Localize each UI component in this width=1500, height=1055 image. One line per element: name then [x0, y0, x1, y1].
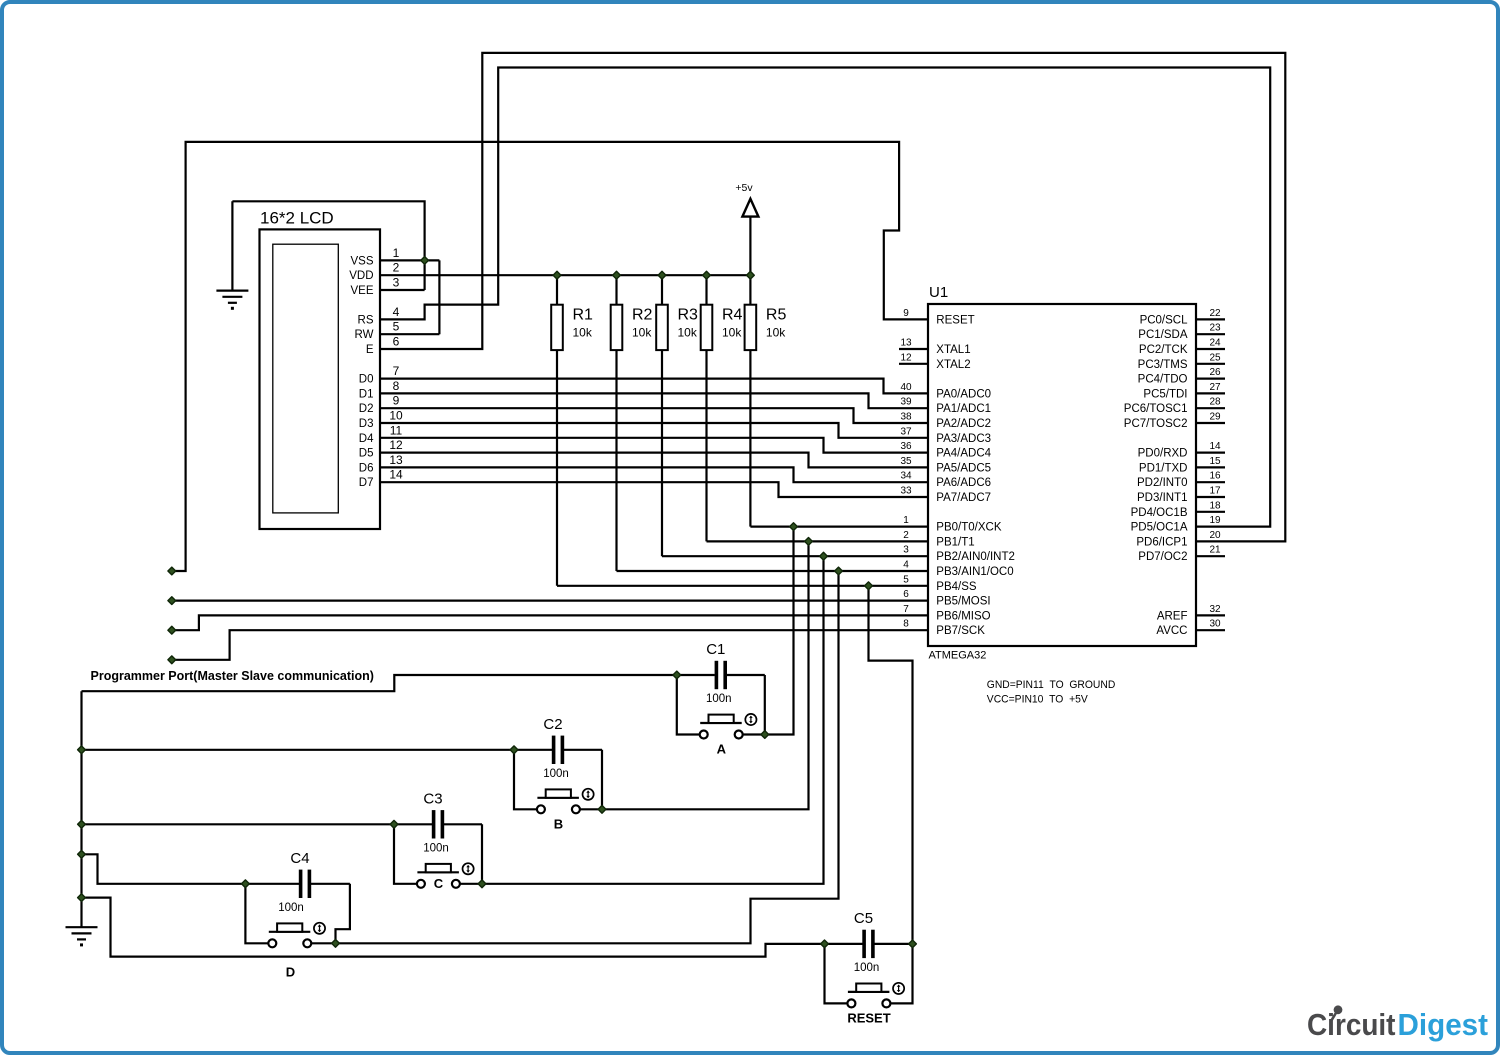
svg-text:PB5/MOSI: PB5/MOSI: [936, 596, 990, 608]
svg-text:12: 12: [900, 352, 912, 363]
svg-text:6: 6: [393, 335, 400, 349]
svg-text:D2: D2: [359, 403, 374, 415]
svg-text:38: 38: [900, 412, 912, 423]
svg-text:39: 39: [900, 397, 912, 408]
svg-text:R1: R1: [573, 307, 594, 324]
svg-text:C3: C3: [423, 790, 442, 807]
svg-text:PA6/ADC6: PA6/ADC6: [936, 477, 991, 489]
svg-text:100n: 100n: [706, 693, 732, 705]
svg-text:13: 13: [389, 453, 403, 467]
svg-text:AVCC: AVCC: [1156, 625, 1187, 637]
svg-text:D: D: [286, 965, 295, 980]
svg-text:26: 26: [1209, 367, 1221, 378]
svg-text:D1: D1: [359, 388, 374, 400]
svg-text:PB6/MISO: PB6/MISO: [936, 610, 990, 622]
svg-text:30: 30: [1209, 619, 1221, 630]
svg-text:3: 3: [903, 545, 909, 556]
svg-text:2: 2: [903, 530, 909, 541]
svg-text:4: 4: [903, 560, 909, 571]
svg-text:PB7/SCK: PB7/SCK: [936, 625, 985, 637]
svg-text:1: 1: [393, 246, 400, 260]
svg-text:PD6/ICP1: PD6/ICP1: [1136, 536, 1187, 548]
svg-text:+5v: +5v: [735, 182, 753, 194]
svg-text:PA5/ADC5: PA5/ADC5: [936, 462, 991, 474]
svg-text:RESET: RESET: [936, 314, 974, 326]
svg-text:C5: C5: [854, 910, 873, 927]
svg-text:36: 36: [900, 441, 912, 452]
svg-text:R2: R2: [632, 307, 653, 324]
svg-text:D5: D5: [359, 448, 374, 460]
svg-text:VEE: VEE: [350, 285, 373, 297]
svg-text:10k: 10k: [722, 326, 742, 340]
svg-text:37: 37: [900, 426, 912, 437]
svg-text:D6: D6: [359, 462, 374, 474]
svg-text:PD7/OC2: PD7/OC2: [1138, 551, 1187, 563]
svg-text:PA0/ADC0: PA0/ADC0: [936, 388, 991, 400]
svg-text:25: 25: [1209, 352, 1221, 363]
svg-text:8: 8: [903, 619, 909, 630]
svg-text:12: 12: [389, 438, 403, 452]
svg-text:PA4/ADC4: PA4/ADC4: [936, 448, 991, 460]
svg-text:18: 18: [1209, 500, 1221, 511]
svg-text:PC3/TMS: PC3/TMS: [1138, 359, 1188, 371]
svg-text:6: 6: [903, 589, 909, 600]
svg-text:2: 2: [393, 261, 400, 275]
svg-text:C4: C4: [290, 850, 309, 867]
svg-text:21: 21: [1209, 545, 1221, 556]
svg-text:PD2/INT0: PD2/INT0: [1137, 477, 1188, 489]
svg-text:PC1/SDA: PC1/SDA: [1138, 329, 1188, 341]
svg-text:10: 10: [389, 409, 403, 423]
svg-text:34: 34: [900, 471, 912, 482]
svg-text:5: 5: [393, 320, 400, 334]
svg-text:PB0/T0/XCK: PB0/T0/XCK: [936, 522, 1002, 534]
svg-text:XTAL1: XTAL1: [936, 344, 970, 356]
svg-text:1: 1: [903, 515, 909, 526]
svg-text:VDD: VDD: [349, 270, 373, 282]
svg-text:17: 17: [1209, 486, 1221, 497]
svg-text:E: E: [366, 344, 374, 356]
svg-text:7: 7: [903, 604, 909, 615]
svg-text:14: 14: [1209, 441, 1221, 452]
svg-text:RW: RW: [355, 329, 374, 341]
svg-text:VCC=PIN10 TO +5V: VCC=PIN10 TO +5V: [987, 694, 1089, 706]
svg-text:9: 9: [393, 394, 400, 408]
svg-text:R3: R3: [678, 307, 699, 324]
svg-text:3: 3: [393, 276, 400, 290]
svg-text:R4: R4: [722, 307, 743, 324]
svg-text:32: 32: [1209, 604, 1221, 615]
svg-text:XTAL2: XTAL2: [936, 359, 970, 371]
svg-text:10k: 10k: [678, 326, 698, 340]
svg-text:PD0/RXD: PD0/RXD: [1138, 448, 1188, 460]
svg-text:RS: RS: [358, 314, 374, 326]
svg-text:PC0/SCL: PC0/SCL: [1140, 314, 1189, 326]
svg-text:C1: C1: [706, 641, 725, 658]
svg-text:PC5/TDI: PC5/TDI: [1143, 388, 1187, 400]
svg-text:4: 4: [393, 305, 400, 319]
svg-text:A: A: [717, 742, 727, 757]
svg-text:27: 27: [1209, 382, 1221, 393]
svg-text:11: 11: [390, 423, 403, 437]
svg-text:10k: 10k: [766, 326, 786, 340]
svg-text:100n: 100n: [854, 962, 880, 974]
svg-text:PA2/ADC2: PA2/ADC2: [936, 418, 991, 430]
svg-text:16: 16: [1209, 471, 1221, 482]
svg-text:35: 35: [900, 456, 912, 467]
svg-text:B: B: [554, 816, 563, 831]
svg-text:D4: D4: [359, 433, 374, 445]
svg-text:8: 8: [393, 379, 400, 393]
svg-text:PD1/TXD: PD1/TXD: [1139, 462, 1188, 474]
svg-text:PB4/SS: PB4/SS: [936, 581, 977, 593]
svg-text:R5: R5: [766, 307, 787, 324]
svg-text:23: 23: [1209, 323, 1221, 334]
svg-text:RESET: RESET: [847, 1010, 890, 1025]
svg-text:19: 19: [1209, 515, 1221, 526]
svg-text:14: 14: [389, 468, 403, 482]
svg-text:29: 29: [1209, 412, 1221, 423]
svg-text:PA1/ADC1: PA1/ADC1: [936, 403, 991, 415]
svg-text:20: 20: [1209, 530, 1221, 541]
svg-text:PD4/OC1B: PD4/OC1B: [1131, 507, 1188, 519]
svg-text:7: 7: [393, 364, 400, 378]
svg-text:U1: U1: [929, 284, 948, 301]
svg-text:24: 24: [1209, 338, 1221, 349]
svg-text:PA3/ADC3: PA3/ADC3: [936, 433, 991, 445]
svg-text:ATMEGA32: ATMEGA32: [929, 650, 987, 662]
svg-text:Programmer Port(Master Slave c: Programmer Port(Master Slave communicati…: [91, 669, 374, 683]
svg-text:13: 13: [900, 338, 912, 349]
svg-text:D3: D3: [359, 418, 374, 430]
svg-text:PB2/AIN0/INT2: PB2/AIN0/INT2: [936, 551, 1015, 563]
svg-text:Circuit: Circuit: [1307, 1007, 1396, 1042]
svg-text:100n: 100n: [423, 842, 449, 854]
svg-text:9: 9: [903, 308, 909, 319]
svg-text:10k: 10k: [632, 326, 652, 340]
svg-text:16*2 LCD: 16*2 LCD: [260, 209, 334, 228]
svg-text:D7: D7: [359, 477, 374, 489]
svg-text:100n: 100n: [543, 768, 569, 780]
svg-text:AREF: AREF: [1157, 610, 1188, 622]
svg-text:Digest: Digest: [1398, 1007, 1489, 1042]
svg-text:PC4/TDO: PC4/TDO: [1138, 374, 1188, 386]
svg-text:22: 22: [1209, 308, 1221, 319]
svg-text:GND=PIN11 TO GROUND: GND=PIN11 TO GROUND: [987, 679, 1116, 691]
svg-text:C2: C2: [543, 716, 562, 733]
svg-text:PA7/ADC7: PA7/ADC7: [936, 492, 991, 504]
svg-text:33: 33: [900, 486, 912, 497]
svg-text:15: 15: [1209, 456, 1221, 467]
svg-text:C: C: [434, 876, 444, 891]
svg-text:PD3/INT1: PD3/INT1: [1137, 492, 1188, 504]
svg-text:PC6/TOSC1: PC6/TOSC1: [1124, 403, 1188, 415]
svg-text:PD5/OC1A: PD5/OC1A: [1131, 522, 1188, 534]
svg-text:28: 28: [1209, 397, 1221, 408]
svg-text:10k: 10k: [573, 326, 593, 340]
svg-text:VSS: VSS: [350, 255, 373, 267]
svg-text:5: 5: [903, 574, 909, 585]
svg-text:100n: 100n: [278, 902, 304, 914]
svg-text:PB1/T1: PB1/T1: [936, 536, 974, 548]
svg-text:D0: D0: [359, 374, 374, 386]
svg-text:40: 40: [900, 382, 912, 393]
svg-text:PC2/TCK: PC2/TCK: [1139, 344, 1188, 356]
svg-text:PC7/TOSC2: PC7/TOSC2: [1124, 418, 1188, 430]
svg-text:PB3/AIN1/OC0: PB3/AIN1/OC0: [936, 566, 1013, 578]
